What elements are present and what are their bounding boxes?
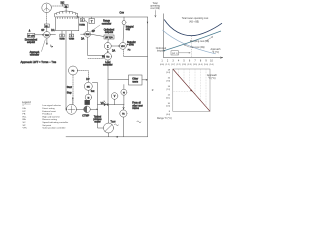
svg-text:TOUT: TOUT (111, 122, 116, 124)
wire range ctrl to SP box (91, 34, 104, 36)
svg-text:VC: VC (101, 103, 105, 105)
valve V circle (111, 93, 118, 105)
svg-text:3: 3 (172, 60, 174, 63)
motor M box (64, 5, 68, 9)
svg-text:7: 7 (194, 60, 196, 63)
svg-text:10: 10 (168, 103, 171, 105)
dashed wire start controller right (78, 71, 89, 83)
svg-text:4: 4 (178, 60, 180, 63)
svg-text:other user: other user (132, 104, 143, 107)
wire chain (87, 90, 89, 94)
wire other users to pipe (142, 79, 148, 80)
pipe drop to users (123, 17, 125, 21)
svg-text:setpoint: setpoint (27, 41, 35, 44)
svg-text:controller: controller (30, 54, 40, 57)
svg-text:(6.1): (6.1) (166, 97, 170, 99)
svg-text:FB: FB (23, 114, 26, 116)
svg-text:setpoint: setpoint (105, 31, 114, 34)
svg-text:= 90%: = 90% (127, 45, 134, 47)
svg-text:T: T (71, 36, 73, 38)
summer circle (104, 43, 111, 50)
svg-text:R: R (152, 90, 154, 92)
svg-text:6: 6 (189, 60, 191, 63)
chart frame (173, 69, 210, 111)
main pump circle (67, 104, 77, 114)
pipe sensor box T (89, 17, 95, 24)
svg-text:Optimized: Optimized (156, 47, 167, 50)
svg-text:(1.1): (1.1) (165, 64, 169, 66)
range controller label (91, 21, 112, 32)
instrument circle right (121, 85, 127, 105)
svg-text:Total: Total (153, 2, 158, 5)
label economized setpoint (25, 40, 38, 45)
dashed wire VPC down (122, 49, 124, 56)
top chart (150, 2, 223, 66)
svg-text:Stop: Stop (67, 92, 72, 95)
svg-text:(2.8): (2.8) (182, 64, 186, 66)
label approach controller (30, 40, 46, 57)
svg-text:(3.3): (3.3) (187, 64, 191, 66)
optimized setpoint label right (104, 28, 115, 34)
svg-text:controller: controller (102, 22, 112, 25)
vertical pipe x97.5 (92, 83, 103, 128)
svg-text:Pumping cost (B$): Pumping cost (B$) (190, 40, 209, 43)
wire range ctrl down and to load controller (88, 37, 104, 56)
svg-text:Approach LWT = TCTWS − TWB: Approach LWT = TCTWS − TWB (21, 60, 57, 64)
svg-text:9: 9 (205, 60, 207, 63)
svg-text:Set point: Set point (42, 124, 51, 127)
svg-text:Range °F (°C): Range °F (°C) (157, 118, 172, 120)
small pump circle dark (84, 106, 91, 113)
svg-text:°F (°C): °F (°C) (212, 52, 219, 54)
wire cooler to bottom pipe (108, 133, 110, 137)
integral only label (126, 25, 134, 31)
fan shaft wire (65, 8, 67, 12)
total cost curve (164, 20, 222, 36)
svg-text:(SP 1)%: (SP 1)% (105, 37, 113, 39)
svg-text:(7.8): (7.8) (166, 81, 170, 83)
TC circle (120, 110, 127, 117)
svg-text:DA: DA (112, 50, 116, 53)
svg-text:SP ±1%: SP ±1% (28, 35, 35, 37)
wire TDIC down (46, 38, 47, 45)
signal bend arrow (51, 45, 53, 48)
svg-text:Σ: Σ (107, 44, 109, 48)
svg-text:Δ: Δ (29, 30, 31, 33)
svg-text:2: 2 (167, 60, 169, 63)
svg-text:Approach: Approach (211, 48, 222, 51)
svg-text:V: V (114, 95, 116, 98)
wire pump up arrow (72, 97, 73, 104)
svg-text:TDIC: TDIC (45, 35, 50, 37)
svg-text:SIC: SIC (87, 86, 91, 88)
svg-text:18: 18 (168, 69, 171, 71)
svg-text:°F (°C): °F (°C) (208, 78, 215, 80)
svg-text:FC: FC (128, 50, 131, 52)
typical process cooler label (93, 116, 102, 123)
grid verticals (173, 69, 206, 107)
condenser water supply pipe right (147, 17, 149, 137)
pipe sensor box A (79, 17, 86, 27)
svg-text:Speed indicating controller: Speed indicating controller (42, 121, 68, 124)
fan cost label (184, 45, 205, 49)
svg-text:Optimized: Optimized (104, 28, 115, 31)
svg-text:14: 14 (168, 86, 171, 88)
wire HLL to TDIC (46, 28, 48, 32)
svg-text:(0.6): (0.6) (160, 64, 164, 66)
svg-text:10: 10 (210, 60, 213, 63)
svg-text:Feedback: Feedback (42, 114, 53, 116)
svg-text:Legend: Legend (22, 100, 31, 104)
legend (22, 100, 68, 130)
SP 1 box (171, 51, 190, 55)
HLL box (44, 24, 49, 28)
svg-text:setpoint: setpoint (157, 49, 166, 52)
start stop labels (67, 86, 72, 95)
svg-text:(5.6): (5.6) (166, 106, 170, 108)
tower downcomer pipe (66, 31, 67, 110)
svg-text:1: 1 (161, 60, 163, 63)
cooling tower box (56, 17, 79, 31)
svg-text:High and low limit: High and low limit (42, 115, 60, 118)
svg-text:CTW: CTW (120, 13, 125, 15)
svg-text:DA: DA (51, 29, 55, 32)
svg-text:DP: DP (86, 79, 90, 81)
SC box pumps (85, 100, 90, 104)
svg-text:(SP 1): (SP 1) (172, 53, 178, 55)
svg-text:SP: SP (92, 31, 96, 33)
svg-text:T: T (91, 20, 93, 24)
svg-text:Integral: Integral (126, 25, 134, 28)
svg-text:5: 5 (183, 60, 185, 63)
svg-text:SC: SC (23, 122, 26, 124)
svg-text:TIC: TIC (106, 57, 110, 59)
pump start stop controller (69, 66, 78, 75)
svg-text:TC: TC (122, 114, 125, 116)
svg-text:PC: PC (72, 71, 75, 73)
svg-text:Reverse acting: Reverse acting (42, 118, 57, 121)
economizer setpoint box (27, 33, 34, 37)
wire SP box to summer (107, 39, 109, 43)
svg-text:DP: DP (23, 111, 27, 113)
svg-text:Start: Start (67, 86, 72, 89)
wire load controller down to other users line (108, 60, 129, 105)
svg-text:(5.6): (5.6) (209, 64, 213, 66)
svg-text:(A$ + B$): (A$ + B$) (189, 20, 199, 23)
svg-text:TDIC: TDIC (85, 34, 90, 36)
svg-text:<: < (23, 104, 25, 107)
fan speed controller circle SC-1 (42, 3, 52, 13)
range diagonal (173, 69, 210, 111)
svg-text:Valve position controller: Valve position controller (42, 127, 65, 130)
svg-text:operating: operating (150, 5, 160, 8)
svg-text:RA: RA (23, 118, 27, 121)
wire TC down (123, 105, 125, 137)
VPC circle (120, 43, 127, 50)
bottom chart (152, 69, 218, 120)
arrow on diagonal (190, 89, 193, 92)
arrow on return pipe (147, 22, 148, 24)
pumping cost label (190, 37, 213, 43)
svg-text:HLL: HLL (23, 116, 28, 118)
wire SC to motor (52, 5, 65, 7)
svg-text:(4.4): (4.4) (166, 114, 170, 116)
svg-text:cooler: cooler (94, 121, 101, 124)
svg-text:(2.2): (2.2) (176, 64, 180, 66)
box SC small top (61, 1, 65, 6)
tower dome (55, 11, 78, 17)
small motor circle (85, 94, 91, 100)
basin sensor box T2 (69, 31, 74, 41)
other users box (129, 75, 143, 85)
from all other user valves label (132, 102, 143, 111)
svg-text:(7.2): (7.2) (166, 89, 170, 91)
heat exchanger circle (104, 123, 114, 133)
svg-text:TCTWS: TCTWS (59, 39, 64, 41)
svg-text:Setpoint: Setpoint (127, 41, 136, 44)
condenser water return pipe (79, 16, 148, 18)
dashed wire fan SC down (46, 13, 48, 24)
svg-text:Fan cost (A$): Fan cost (A$) (191, 46, 205, 49)
wire pumps to right pipe (77, 109, 98, 110)
svg-text:(1.7): (1.7) (171, 64, 175, 66)
svg-text:(4.4): (4.4) (198, 64, 202, 66)
svg-text:DA: DA (23, 107, 27, 110)
arrow into tower top (77, 16, 79, 18)
dashed wire FB to load controller (88, 57, 104, 59)
axis tick labels (161, 60, 213, 63)
approach controller TDIC-1 (44, 32, 51, 39)
svg-text:CTWP: CTWP (82, 116, 89, 118)
load controller label (103, 62, 113, 67)
svg-text:users: users (132, 81, 139, 84)
svg-text:From all: From all (132, 102, 141, 105)
wire arrow into range ctrl (81, 34, 85, 35)
svg-text:cost (A$): cost (A$) (150, 7, 160, 10)
svg-text:process: process (93, 118, 102, 121)
setpoint 90% label (127, 41, 136, 47)
svg-text:Set: Set (91, 90, 95, 93)
svg-text:VPC: VPC (23, 128, 28, 130)
basin sensor box T1 (59, 31, 64, 41)
instrument bubble on drop (122, 21, 126, 25)
svg-text:TCTWS: TCTWS (69, 39, 74, 41)
svg-text:Other: Other (132, 77, 138, 80)
svg-text:T: T (61, 36, 63, 38)
bottom return pipe (66, 136, 148, 137)
load circle with squiggle (114, 121, 141, 126)
pumping cost curve (163, 31, 221, 51)
svg-text:(9.4): (9.4) (166, 72, 170, 74)
svg-text:Total tower operating cost: Total tower operating cost (182, 17, 209, 20)
svg-text:VPC: VPC (121, 46, 126, 48)
fan cost curve (163, 30, 216, 54)
y axis tick labels (166, 69, 171, 116)
svg-text:16: 16 (168, 78, 171, 80)
pump speed controller circle (84, 82, 92, 90)
chart axes (163, 14, 222, 59)
range controller TDIC-2 (85, 31, 91, 37)
wire setpoint arrow into TDIC (35, 34, 44, 35)
svg-text:TCTWR: TCTWR (79, 25, 86, 27)
wire summer to load controller (107, 50, 108, 53)
wire bubble down to VPC (123, 25, 124, 43)
svg-text:(3.9): (3.9) (193, 64, 197, 66)
svg-text:(5.0): (5.0) (204, 64, 208, 66)
svg-text:Direct acting: Direct acting (42, 107, 55, 110)
wire summer to VPC circle (111, 46, 119, 47)
wire TDIC to tower sensors (50, 34, 55, 36)
dashed wire start controller to pump (72, 75, 74, 104)
load controller circle (104, 53, 111, 60)
svg-text:External reset: External reset (42, 110, 56, 113)
y axis label arrow (155, 10, 156, 17)
svg-text:Approach: Approach (207, 74, 218, 77)
svg-text:SP: SP (23, 125, 26, 127)
wire range ctrl up to sensor (84, 20, 87, 31)
svg-text:8: 8 (200, 60, 202, 63)
svg-text:only: only (126, 29, 131, 31)
svg-text:M: M (88, 97, 90, 99)
svg-text:Low signal selector: Low signal selector (42, 104, 61, 107)
wire pipe to cooler (107, 105, 109, 123)
svg-text:valves: valves (132, 108, 139, 110)
pipe to users y104.6 (98, 104, 124, 106)
svg-text:DA: DA (81, 38, 85, 41)
optimum dashed line (191, 36, 193, 58)
svg-text:FI: FI (123, 92, 125, 94)
svg-text:SP: SP (41, 30, 45, 32)
optimized SP box (104, 35, 114, 39)
svg-text:12: 12 (168, 94, 171, 96)
control valve bowtie (104, 101, 109, 107)
